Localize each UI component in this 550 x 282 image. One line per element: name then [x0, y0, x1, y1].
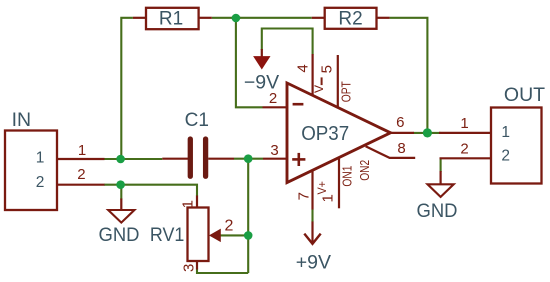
svg-text:V+: V+	[315, 181, 329, 195]
wire OUT pin2 down to GND	[440, 158, 442, 172]
svg-text:3: 3	[270, 142, 278, 159]
op-amp pin 7 V+	[296, 170, 329, 209]
svg-text:3: 3	[181, 264, 198, 272]
wire node C1/RV1 vertical	[247, 159, 249, 273]
junction C1/op-amp pin3 node	[244, 154, 253, 163]
svg-text:2: 2	[225, 218, 234, 235]
capacitor C1	[162, 110, 234, 176]
svg-text:C1: C1	[185, 110, 209, 131]
svg-text:1: 1	[78, 142, 86, 159]
wire RV1 wiper to vertical	[221, 234, 249, 236]
wire IN pin2 junction down to GND	[120, 185, 122, 200]
op-amp pin 3 (non-inverting)	[263, 142, 287, 159]
svg-text:1: 1	[460, 115, 468, 132]
junction RV1 wiper node	[244, 231, 253, 240]
svg-text:2: 2	[36, 174, 45, 191]
svg-text:6: 6	[396, 114, 404, 131]
connector OUT	[439, 84, 545, 184]
svg-text:ON2: ON2	[358, 160, 372, 181]
svg-text:1: 1	[179, 200, 196, 208]
svg-text:IN: IN	[12, 109, 32, 131]
svg-text:OUT: OUT	[504, 84, 545, 106]
svg-text:1: 1	[36, 149, 45, 166]
wire junction down to op-amp pin 2	[236, 18, 263, 108]
junction output node	[423, 128, 432, 137]
connector IN	[5, 109, 105, 210]
wire op-amp output to OUT	[414, 132, 441, 134]
svg-text:1: 1	[501, 124, 510, 141]
svg-text:2: 2	[77, 166, 85, 183]
svg-text:2: 2	[460, 140, 468, 157]
power -9V	[244, 49, 279, 94]
potentiometer RV1	[150, 196, 234, 272]
svg-text:GND: GND	[99, 224, 140, 246]
resistor R1	[133, 8, 212, 30]
svg-text:R2: R2	[338, 9, 362, 30]
wire RV1 pin3 bottom	[197, 269, 248, 274]
svg-text:4: 4	[295, 64, 312, 72]
power +9V	[296, 222, 331, 274]
wire C1 right to op-amp pin 3	[234, 158, 263, 160]
op-amp pin 1 ON1	[320, 158, 355, 209]
wire R1 left to IN pin1 junction	[121, 18, 133, 159]
svg-text:ON1: ON1	[341, 166, 355, 187]
wire R1 right to junction	[212, 17, 241, 19]
svg-text:OP37: OP37	[301, 123, 349, 145]
ground GND (output side)	[417, 171, 458, 222]
junction IN pin2 node	[116, 180, 125, 189]
svg-text:8: 8	[397, 140, 405, 157]
junction IN pin1 node	[116, 155, 125, 164]
op-amp pin 8 ON2	[358, 140, 415, 181]
resistor R2	[312, 8, 390, 30]
svg-text:+9V: +9V	[296, 251, 331, 273]
op-amp pin 6 output	[391, 114, 415, 133]
op-amp pin 5 OPT	[318, 55, 353, 107]
svg-text:GND: GND	[417, 200, 458, 222]
svg-text:7: 7	[296, 192, 313, 200]
svg-text:2: 2	[501, 148, 510, 165]
wire -9V net	[262, 29, 313, 55]
svg-text:1: 1	[320, 194, 337, 202]
wire IN pin2 to RV1 pin1	[104, 185, 197, 196]
svg-text:OPT: OPT	[338, 81, 353, 102]
svg-text:RV1: RV1	[150, 224, 185, 246]
wire +9V segment	[311, 209, 313, 222]
wire R2 right down to output junction	[390, 18, 428, 133]
svg-text:2: 2	[269, 90, 277, 107]
svg-text:V: V	[312, 85, 326, 93]
op-amp pin 4 V-	[295, 54, 326, 96]
svg-text:5: 5	[318, 65, 335, 73]
wire IN pin1 to C1	[104, 158, 162, 160]
op-amp pin 2 (inverting)	[263, 90, 288, 107]
svg-text:R1: R1	[159, 9, 183, 30]
ground GND (input side)	[99, 199, 140, 246]
junction R1/R2 node	[232, 14, 241, 23]
wire junction to R2 left	[232, 17, 312, 19]
op-amp U1 OP37	[287, 83, 391, 183]
